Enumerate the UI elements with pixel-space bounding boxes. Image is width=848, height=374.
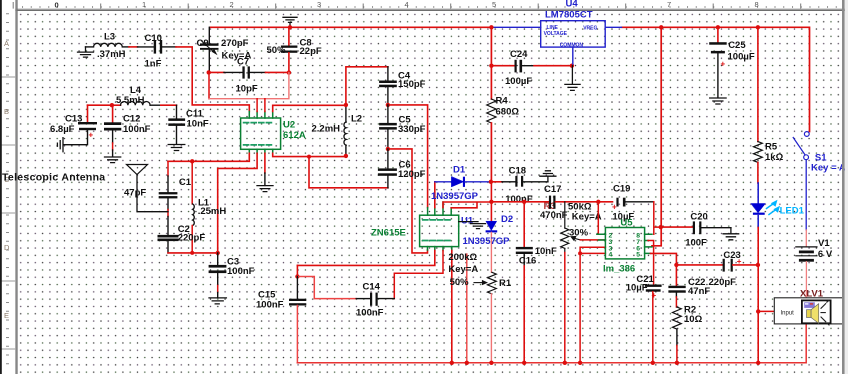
svg-text:D: D (4, 243, 10, 252)
capacitor C5 (379, 105, 397, 149)
svg-text:50%: 50% (450, 277, 470, 288)
wire U2 pin2 bottom to C3 (218, 153, 257, 253)
wire LED node to ground bus (757, 311, 759, 362)
diode D2 (486, 182, 498, 272)
IC U1 ZN615E box (420, 215, 459, 246)
svg-text:Key = A: Key = A (811, 162, 846, 173)
junction audio node at R4 (489, 200, 493, 204)
ruler band top (0, 0, 848, 9)
junction node L4/C12/C13 (110, 103, 114, 107)
svg-text:XLV1: XLV1 (800, 289, 824, 300)
svg-text:D1: D1 (453, 164, 466, 175)
ground (LM7805 common) (565, 66, 580, 91)
svg-text:100µF: 100µF (505, 76, 532, 87)
svg-text:COMMON: COMMON (560, 42, 584, 48)
junction V+ C19/C20 (659, 225, 663, 229)
junction C16 top (522, 200, 526, 204)
svg-text:lm_386: lm_386 (603, 263, 635, 274)
junction rail-R5 (756, 25, 760, 29)
ground (U2) (257, 186, 273, 192)
wire C4/C5 node to ZN pin (388, 105, 428, 208)
svg-text:R5: R5 (765, 142, 778, 153)
wire C7 bypass run (pale) (208, 72, 210, 98)
wire C19 right to U5 pin8 and V+ (654, 202, 661, 234)
capacitor C7 (209, 66, 289, 78)
junction L1 bottom (190, 251, 194, 255)
junction tank bottom tap (307, 155, 311, 159)
svg-text:5: 5 (492, 0, 496, 9)
ground (top, near C8) (283, 17, 297, 27)
junction rail-R4 (489, 25, 493, 29)
junction C19 feed (596, 200, 600, 204)
svg-text:220pF: 220pF (178, 232, 206, 243)
wire audio node right run (491, 201, 549, 203)
junction rail-V+ (659, 25, 663, 29)
diode D1 (435, 177, 491, 187)
svg-text:A: A (4, 39, 9, 48)
capacitor C20 (661, 221, 731, 234)
junction rail-ground (288, 25, 292, 29)
junction L1 top (190, 159, 194, 163)
junction node C7/C8 right (287, 70, 291, 74)
svg-text:100nF: 100nF (227, 266, 255, 277)
svg-text:1N3957GP: 1N3957GP (431, 191, 479, 202)
svg-text:8: 8 (755, 0, 759, 9)
svg-text:1kΩ: 1kΩ (765, 152, 784, 163)
resistor R4 (487, 27, 496, 182)
svg-text:Telescopic Antenna: Telescopic Antenna (2, 172, 105, 184)
IC U2 NE612A box (241, 118, 281, 149)
svg-text:C18: C18 (509, 166, 526, 177)
svg-text:612A: 612A (283, 130, 306, 141)
wire U1 pin2 bottom to C15 node (297, 251, 434, 266)
switch S1 (793, 132, 809, 247)
junction speaker feed (756, 309, 760, 313)
svg-text:1N3957GP: 1N3957GP (463, 236, 511, 247)
junction C5/C6 node (386, 147, 390, 151)
ruler left letters (4, 39, 10, 320)
wire U5 pin5 output (651, 253, 677, 265)
junction LM7805 common (570, 63, 574, 67)
resistor R2 (673, 307, 682, 363)
capacitor C25 (709, 27, 727, 97)
svg-text:B: B (4, 107, 9, 116)
U2 pin stubs top (249, 112, 272, 119)
svg-text:120pF: 120pF (398, 169, 426, 180)
capacitor C1 (159, 161, 178, 235)
speaker instrument XLV1 box (774, 298, 843, 325)
U5 pin stubs (597, 234, 652, 253)
wire C15 node riser (296, 265, 298, 276)
svg-text:U4: U4 (566, 0, 579, 10)
capacitor C14 (356, 293, 394, 306)
svg-text:C19: C19 (613, 184, 630, 195)
wire U1 pin to D1 anode (434, 182, 436, 208)
variable capacitor C9 (200, 27, 219, 71)
wire C19 feed to U5 pin2 (598, 202, 605, 235)
svg-text:200kΩ: 200kΩ (448, 252, 477, 263)
capacitor C15 (289, 277, 306, 363)
window frame right (845, 0, 848, 374)
inductor L3 (86, 43, 130, 47)
svg-text:1nF: 1nF (145, 59, 162, 70)
wire C5/C6 node to ZN pin1 bottom (388, 149, 428, 253)
wire U2 pin riser to L2 top (273, 105, 346, 111)
svg-text:330pF: 330pF (398, 124, 426, 135)
capacitor C10 (138, 40, 177, 54)
svg-text:+: + (737, 257, 742, 266)
svg-text:100µF: 100µF (728, 51, 755, 62)
svg-text:680Ω: 680Ω (496, 107, 520, 118)
ruler band left (0, 0, 15, 374)
window frame left (0, 0, 2, 374)
wire U1 pin3 bottom to C14 (394, 251, 443, 299)
ground (L3 left) (78, 47, 94, 57)
ground (C18, inverted) (540, 171, 556, 182)
svg-text:C16: C16 (519, 256, 536, 267)
svg-text:L3: L3 (104, 31, 115, 42)
svg-text:U5: U5 (620, 217, 633, 228)
wire L4 to C11 (161, 104, 177, 106)
ground (C20) (723, 228, 739, 240)
wire tank bottom to C6 bottom (309, 157, 388, 188)
wire U2 pin3 bottom to ground (264, 153, 266, 173)
inductor L2 (344, 105, 346, 156)
svg-text:6.8µF: 6.8µF (50, 124, 75, 135)
svg-text:ZN615E: ZN615E (371, 228, 406, 239)
svg-text:D2: D2 (501, 214, 513, 225)
svg-text:100F: 100F (685, 238, 707, 249)
ground (C12) (105, 157, 121, 163)
svg-text:E: E (4, 311, 9, 320)
svg-text:7: 7 (667, 0, 671, 9)
svg-text:C14: C14 (363, 282, 381, 293)
svg-text:C10: C10 (145, 33, 162, 44)
junction rail-C25 (716, 25, 720, 29)
wire C10 to U2 pin riser (176, 47, 249, 112)
svg-text:C7: C7 (237, 57, 249, 68)
junction L2 top (344, 103, 348, 107)
svg-text:47nF: 47nF (688, 286, 710, 297)
svg-text:+: + (721, 60, 726, 69)
svg-text:5.5mH: 5.5mH (116, 95, 145, 106)
svg-text:C12: C12 (123, 113, 140, 124)
svg-text:1: 1 (142, 0, 146, 9)
ruler top minor dots (22, 7, 848, 8)
svg-text:0: 0 (55, 1, 59, 10)
wire Vin rail (red part) (210, 27, 810, 131)
junction node C9/C7 left (207, 70, 211, 74)
svg-text:10nF: 10nF (535, 246, 557, 257)
resistor R5 (754, 27, 763, 183)
svg-text:30%: 30% (569, 227, 589, 238)
svg-text:L2: L2 (351, 114, 362, 125)
junction LED/C23 (756, 263, 760, 267)
ruler left ticks (1, 77, 15, 349)
capacitor C24 (491, 60, 572, 73)
capacitor C23 (676, 259, 758, 272)
inductor L1 (192, 161, 194, 253)
junction C4/C5 node (386, 103, 390, 107)
svg-text:3: 3 (317, 0, 321, 9)
svg-text:5: 5 (636, 252, 640, 259)
svg-text:10nF: 10nF (187, 118, 209, 129)
svg-text:100nF: 100nF (356, 308, 384, 319)
ruler top numbers (55, 0, 759, 9)
svg-text:47pF: 47pF (124, 188, 146, 199)
ground (C13, rotated left) (57, 138, 63, 152)
wire LM7805 output lead (blue) (605, 26, 621, 28)
svg-text:C17: C17 (544, 184, 561, 195)
svg-text:4: 4 (405, 0, 409, 9)
svg-text:100nF: 100nF (123, 124, 151, 135)
capacitor C2 (158, 235, 179, 253)
junction D1/C18/R4/D2 (489, 180, 493, 184)
svg-text:+: + (652, 291, 657, 300)
wire unknown net to bus (466, 254, 468, 363)
potentiometer R1 (474, 272, 496, 363)
svg-text:.37mH: .37mH (97, 49, 126, 60)
capacitor C12 (104, 105, 121, 156)
capacitor C13 (64, 105, 97, 145)
svg-text:C25: C25 (728, 40, 746, 51)
svg-text:10µF: 10µF (626, 283, 648, 294)
wire U2 pin4 bottom to L2 bottom (273, 153, 346, 156)
svg-text:C24: C24 (510, 49, 528, 60)
wire C4 top loop (346, 67, 388, 105)
capacitor C6 (378, 149, 397, 188)
svg-text:2.2mH: 2.2mH (312, 123, 341, 134)
svg-text:6 V: 6 V (818, 249, 833, 260)
wire C15 node to C14 left (297, 277, 356, 299)
svg-text:+: + (612, 203, 617, 212)
junction C15 top (295, 274, 299, 278)
wire to XLV1 input (758, 310, 774, 312)
ground (C3) (209, 298, 226, 304)
svg-text:C9: C9 (197, 38, 209, 49)
wire U5 gnd pins to bus (580, 247, 605, 363)
battery V1 (796, 247, 817, 300)
wire LED node down to speaker feed (757, 265, 759, 312)
inductor L4 (112, 101, 161, 105)
wire V+ drop to U5 pin6 (652, 27, 661, 246)
capacitor C16 (516, 202, 533, 363)
wire bypass taps to U2 pins (257, 99, 265, 112)
junction L2 bottom (344, 154, 348, 158)
ground (U1 right pin) (459, 222, 486, 229)
svg-text:V1: V1 (818, 238, 830, 249)
wire audio node to C19 (564, 201, 613, 203)
antenna symbol (127, 165, 169, 212)
svg-text:.25mH: .25mH (198, 206, 227, 217)
capacitor C21 (from U5 pin7) (645, 241, 662, 363)
capacitor C8 (281, 27, 298, 72)
potentiometer R3 volume (561, 202, 581, 363)
svg-text:VOLTAGE: VOLTAGE (544, 31, 568, 37)
svg-text:4: 4 (609, 252, 613, 259)
capacitor C4 (379, 67, 397, 105)
junction C24 left (489, 63, 493, 67)
wire R3 wiper to U5 pin3 (580, 239, 605, 241)
svg-text:100nF: 100nF (505, 194, 533, 205)
IC U5 lm_386 box (605, 228, 644, 259)
junction C22/C23 node (674, 263, 678, 267)
voltage regulator U4 LM7805CT box (541, 21, 606, 64)
LED LED1 (751, 183, 780, 265)
U1 pin stubs top (428, 202, 452, 215)
svg-text:Input: Input (781, 310, 795, 316)
svg-text:150pF: 150pF (398, 79, 426, 90)
wire U1 pin4 top jog (451, 202, 477, 207)
svg-text:Key=A: Key=A (448, 264, 478, 275)
junction C3 top (216, 251, 220, 255)
svg-text:100nF: 100nF (256, 300, 284, 311)
svg-text:22pF: 22pF (300, 46, 322, 57)
ground bus wire (bottom) (297, 324, 806, 363)
svg-text:+: + (89, 131, 94, 140)
capacitor C11 (168, 105, 185, 144)
U1 pin stubs bottom (428, 247, 452, 251)
svg-text:C13: C13 (65, 113, 82, 124)
wire LM7805 input lead (blue) (491, 26, 540, 28)
capacitor C17 (549, 196, 564, 209)
svg-text:220pF: 220pF (709, 277, 737, 288)
capacitor C3 (209, 253, 227, 298)
wire C2 bottom to C3 node (168, 252, 218, 254)
wire C13 to L4 node (88, 104, 112, 106)
capacitor C18 (491, 176, 548, 187)
svg-text:C1: C1 (179, 177, 192, 188)
wire U1 pin4 bottom to bus (451, 251, 453, 363)
svg-text:10pF: 10pF (236, 84, 258, 95)
ruler top ticks (13, 2, 801, 9)
capacitor C22 (668, 265, 685, 307)
svg-text:C20: C20 (690, 212, 707, 223)
wire L3 to C10 (129, 46, 138, 48)
svg-text:270pF: 270pF (221, 38, 249, 49)
ground (C25) (710, 98, 726, 104)
capacitor C19 (616, 198, 653, 207)
U2 pin stubs bottom (249, 149, 272, 153)
wire U2 pin1 bottom to C1 node (168, 153, 249, 161)
svg-text:Key=A: Key=A (572, 211, 602, 222)
svg-text:VREG: VREG (583, 26, 597, 32)
ground (C11) (168, 145, 185, 151)
svg-text:470nF: 470nF (540, 210, 568, 221)
svg-text:LED1: LED1 (780, 206, 805, 217)
bus junction dots (450, 361, 454, 365)
wire U1 audio out pin (y=202) (443, 202, 491, 208)
svg-text:2: 2 (230, 0, 234, 9)
svg-text:10Ω: 10Ω (684, 314, 703, 325)
junction U5 gnd (578, 251, 582, 255)
svg-text:R1: R1 (499, 278, 512, 289)
svg-text:LM7805CT: LM7805CT (545, 10, 593, 21)
svg-text:R4: R4 (496, 96, 509, 107)
